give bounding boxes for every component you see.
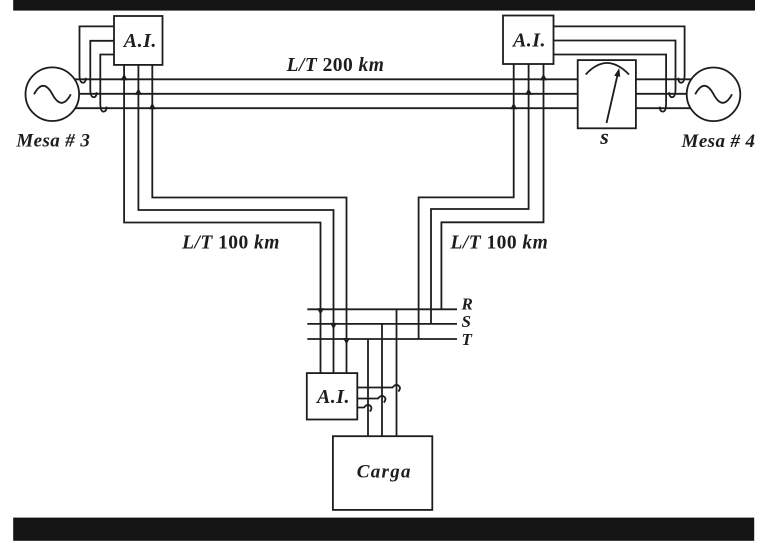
- svg-text:A.I.: A.I.: [122, 30, 157, 52]
- arrow up on right branch S at phase 2: [525, 88, 532, 95]
- svg-text:Mesa # 4: Mesa # 4: [681, 131, 756, 152]
- wire right branch S: [431, 64, 529, 324]
- wire left branch R (left A.I. bottom to bus R, down to lower A.I.): [124, 65, 320, 373]
- wire right branch T: [419, 64, 514, 339]
- meter s needle: [607, 75, 618, 123]
- top border bar: [13, 0, 755, 11]
- arrow up on left branch S at phase 2: [135, 88, 142, 95]
- wire lower A.I. tap R (hook onto feed R): [357, 385, 400, 392]
- arrow down on left branch S at bus S: [330, 323, 337, 330]
- meter box s (synchroscope): [578, 60, 636, 128]
- wire left branch T: [152, 65, 346, 373]
- arrow up on right branch R at phase 1: [540, 74, 547, 81]
- load box Carga: [333, 436, 432, 510]
- generator G3 circle: [26, 67, 80, 121]
- wire load feed S: [381, 324, 383, 436]
- instrument box A.I. right: [503, 16, 554, 65]
- generator G4 circle: [687, 68, 741, 122]
- instrument box A.I. left: [114, 16, 163, 65]
- wire right A.I. tap 2 (to phase 2 with hook): [554, 41, 676, 98]
- arrow down on left branch T at bus T: [343, 338, 350, 345]
- wire load feed T: [367, 339, 369, 436]
- instrument box A.I. lower: [307, 373, 358, 419]
- bus line T: [307, 338, 457, 340]
- meter s needle arrowhead: [614, 68, 620, 77]
- svg-text:A.I.: A.I.: [315, 386, 350, 408]
- generator G3 sine symbol: [34, 86, 71, 103]
- svg-text:R: R: [461, 295, 473, 314]
- svg-text:Mesa # 3: Mesa # 3: [15, 131, 90, 152]
- svg-text:L/T 100 km: L/T 100 km: [181, 233, 280, 254]
- svg-text:S: S: [462, 312, 471, 331]
- wire lower A.I. tap T (hook onto feed T): [357, 405, 371, 412]
- bus line S: [307, 323, 457, 325]
- svg-text:T: T: [462, 330, 473, 349]
- meter s arc: [586, 63, 629, 75]
- wire right A.I. tap 3 (to phase 3 with hook): [554, 55, 667, 112]
- wire right A.I. tap 1 (box right edge to phase 1 with hook): [554, 26, 685, 82]
- wire left branch S: [138, 65, 333, 373]
- arrow up on left branch T at phase 3: [149, 103, 156, 110]
- wire lower A.I. tap S (hook onto feed S): [357, 396, 385, 403]
- wire load feed R (bus R down to Carga): [396, 309, 398, 436]
- generator G4 sine symbol: [695, 86, 732, 103]
- arrow up on right branch T at phase 3: [510, 103, 517, 110]
- wire left A.I. tap 2 (to phase 2 with hook): [90, 41, 114, 97]
- wire phase 1 (top conductor, left segment L/T 200 km): [58, 78, 691, 80]
- svg-text:s: s: [599, 124, 609, 149]
- svg-text:L/T 100 km: L/T 100 km: [450, 233, 549, 254]
- svg-text:L/T 200 km: L/T 200 km: [286, 55, 385, 76]
- wire left A.I. tap 3 (to phase 3 with hook): [100, 55, 114, 112]
- wire phase 2 (middle conductor): [58, 93, 690, 95]
- bottom border bar: [13, 518, 754, 541]
- svg-text:Carga: Carga: [357, 462, 412, 483]
- wire left A.I. tap 1 (box left edge to phase 1 with hook): [80, 26, 115, 82]
- svg-text:A.I.: A.I.: [511, 30, 546, 52]
- arrow down on left branch R at bus R: [317, 308, 324, 315]
- wire right branch R (right A.I. bottom to bus R): [441, 64, 543, 309]
- bus line R: [307, 308, 457, 310]
- arrow up on left branch R at phase 1: [121, 74, 128, 81]
- wire phase 3 (bottom conductor): [58, 107, 691, 109]
